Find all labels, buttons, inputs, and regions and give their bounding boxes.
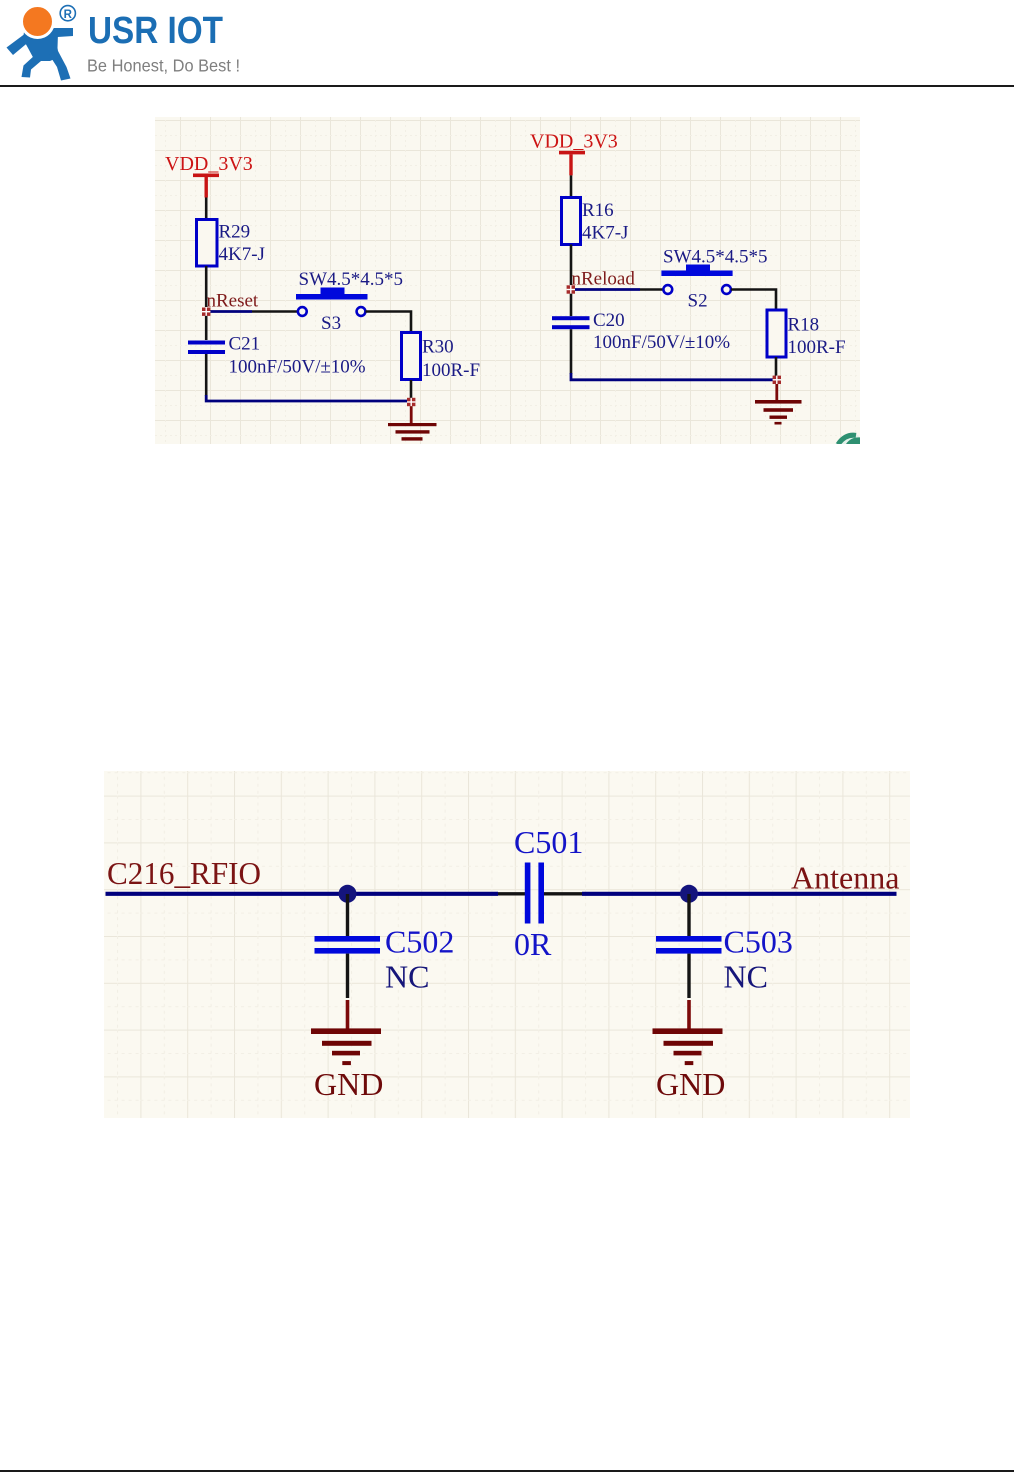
capacitor C503 bbox=[656, 924, 793, 995]
power symbol VDD_3V3 (right) bbox=[559, 151, 585, 176]
pin lead right of C501 bbox=[544, 892, 584, 895]
switch S2 bbox=[661, 265, 732, 312]
svg-text:100nF/50V/±10%: 100nF/50V/±10% bbox=[593, 332, 730, 353]
svg-text:USR IOT: USR IOT bbox=[88, 10, 223, 52]
logo man head bbox=[22, 6, 54, 38]
switch S3 bbox=[296, 288, 368, 335]
svg-text:C503: C503 bbox=[724, 924, 793, 960]
wire power to R29 bbox=[205, 198, 208, 220]
wire bottom rail to junction below R18 bbox=[571, 373, 773, 380]
svg-text:C20: C20 bbox=[593, 310, 625, 331]
wire C20 to bottom rail bbox=[570, 329, 573, 374]
resistor R30 bbox=[402, 333, 481, 382]
wire R18 to ground junction bbox=[775, 357, 778, 376]
wire C503 to ground bbox=[687, 954, 690, 998]
capacitor C501 bbox=[514, 824, 583, 962]
svg-text:S3: S3 bbox=[321, 313, 341, 334]
svg-text:VDD_3V3: VDD_3V3 bbox=[530, 131, 618, 153]
header logo bbox=[0, 0, 240, 86]
svg-text:Antenna: Antenna bbox=[791, 860, 899, 896]
wire junction to C502 bbox=[346, 894, 349, 936]
svg-text:C502: C502 bbox=[385, 924, 454, 960]
ground GND (right) bbox=[653, 1000, 726, 1102]
junction nReload bbox=[567, 285, 575, 293]
pin lead left of C501 bbox=[498, 892, 525, 895]
resistor R16 bbox=[562, 198, 629, 245]
wire RFIO to C501 (main rail left) bbox=[106, 892, 499, 896]
svg-text:VDD_3V3: VDD_3V3 bbox=[165, 153, 253, 175]
capacitor C20 bbox=[552, 294, 730, 353]
junction node at C503 bbox=[680, 885, 698, 903]
svg-text:100nF/50V/±10%: 100nF/50V/±10% bbox=[229, 357, 366, 378]
wire C21 to bottom rail bbox=[205, 354, 208, 396]
registered trademark symbol bbox=[60, 6, 75, 21]
wire C502 to ground bbox=[346, 954, 349, 998]
svg-text:R18: R18 bbox=[788, 315, 820, 336]
logo man torso bbox=[23, 27, 59, 62]
capacitor C502 bbox=[315, 924, 455, 995]
capacitor C21 bbox=[188, 316, 366, 378]
schematic 1: reset / reload button circuits bbox=[155, 117, 860, 444]
svg-text:100R-F: 100R-F bbox=[788, 337, 846, 358]
svg-text:0R: 0R bbox=[514, 926, 552, 962]
logo man right arm bbox=[48, 28, 73, 38]
svg-text:SW4.5*4.5*5: SW4.5*4.5*5 bbox=[299, 269, 404, 290]
svg-text:4K7-J: 4K7-J bbox=[582, 223, 628, 244]
watermark green swoosh bbox=[835, 434, 861, 445]
wire bottom rail to junction below R30 bbox=[206, 395, 408, 401]
wire R16 to node nReload bbox=[570, 245, 573, 286]
svg-text:Be Honest, Do Best !: Be Honest, Do Best ! bbox=[87, 56, 240, 76]
schematic 2: RF antenna pi network bbox=[104, 771, 910, 1118]
logo man right leg bbox=[49, 51, 71, 81]
junction node at C502 bbox=[339, 885, 357, 903]
svg-text:R30: R30 bbox=[422, 337, 454, 358]
logo man left arm bbox=[7, 33, 32, 55]
svg-text:C21: C21 bbox=[229, 334, 261, 355]
svg-text:4K7-J: 4K7-J bbox=[219, 244, 265, 265]
svg-text:R: R bbox=[64, 9, 73, 21]
junction below R30 bbox=[407, 398, 415, 406]
ground (left circuit) bbox=[388, 406, 437, 440]
header rule bbox=[0, 85, 1014, 87]
wire power to R16 bbox=[570, 175, 573, 197]
svg-text:R29: R29 bbox=[219, 222, 251, 243]
svg-text:NC: NC bbox=[385, 959, 429, 995]
wire R29 to node nReset bbox=[205, 266, 208, 307]
resistor R18 bbox=[767, 310, 846, 358]
svg-text:R16: R16 bbox=[582, 200, 614, 221]
resistor R29 bbox=[197, 220, 265, 267]
wire junction to C503 bbox=[687, 894, 690, 936]
wire S3 to R30 bbox=[366, 312, 412, 333]
ground (right circuit) bbox=[755, 384, 802, 425]
ground GND (left) bbox=[311, 1000, 383, 1102]
junction below R18 bbox=[773, 376, 781, 384]
svg-text:SW4.5*4.5*5: SW4.5*4.5*5 bbox=[663, 247, 768, 268]
svg-text:100R-F: 100R-F bbox=[422, 360, 480, 381]
footer rule bbox=[0, 1470, 1014, 1472]
svg-text:nReset: nReset bbox=[207, 291, 259, 312]
svg-text:nReload: nReload bbox=[572, 269, 636, 290]
power symbol VDD_3V3 (left) bbox=[193, 174, 219, 198]
logo man left leg bbox=[22, 55, 42, 78]
wire nReload node to switch S2 bbox=[573, 288, 663, 291]
wire nReset node to switch S3 bbox=[208, 310, 298, 313]
svg-text:C501: C501 bbox=[514, 824, 583, 860]
wire R30 to ground junction bbox=[410, 380, 413, 398]
wire S2 to R18 bbox=[731, 290, 776, 310]
svg-text:GND: GND bbox=[314, 1066, 383, 1102]
svg-text:GND: GND bbox=[656, 1066, 725, 1102]
svg-text:S2: S2 bbox=[688, 291, 708, 312]
junction nReset bbox=[202, 308, 210, 316]
wire C501 to Antenna (main rail right) bbox=[582, 892, 897, 896]
svg-text:C216_RFIO: C216_RFIO bbox=[107, 855, 261, 891]
svg-text:NC: NC bbox=[724, 959, 768, 995]
